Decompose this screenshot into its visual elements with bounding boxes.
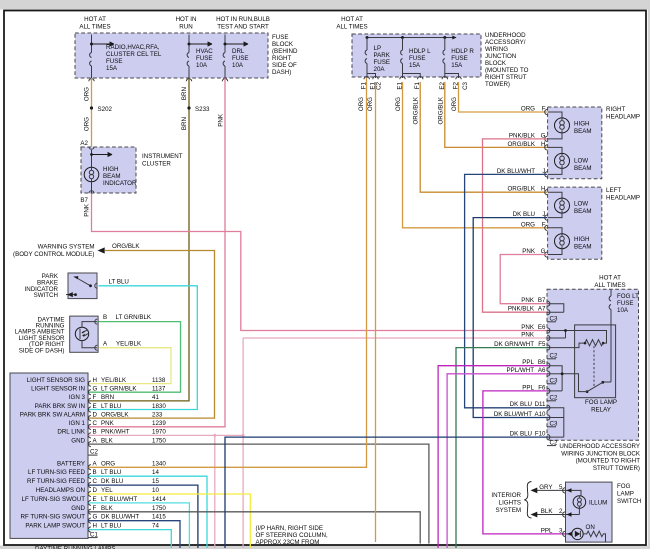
svg-text:PNK: PNK (101, 420, 115, 427)
svg-text:PNK: PNK (521, 331, 535, 338)
fog lamp relay inner box (575, 325, 616, 398)
svg-text:FOG LAMP: FOG LAMP (585, 399, 617, 406)
svg-text:15A: 15A (106, 65, 118, 72)
svg-text:D: D (93, 487, 98, 494)
svg-text:SIDE OF DASH): SIDE OF DASH) (19, 347, 65, 354)
left headlamp low beam bulb (548, 192, 592, 215)
svg-text:PARK BRK SW ALARM: PARK BRK SW ALARM (20, 411, 85, 418)
svg-text:A2: A2 (80, 140, 88, 147)
svg-text:UNDERHOOD ACCESSORY: UNDERHOOD ACCESSORY (559, 443, 640, 450)
svg-text:ORG: ORG (395, 97, 402, 111)
module pin C RF TURN-SIG FEED (27, 478, 159, 488)
module pin E LF TURN-SIG SWOUT (22, 496, 167, 506)
splice S202 (90, 106, 93, 109)
junction block location label (485, 32, 529, 88)
svg-text:F5: F5 (538, 341, 546, 348)
wire PNK/WHT module B to relay coil and down (89, 338, 548, 548)
svg-text:PNK: PNK (218, 113, 225, 127)
wire PNK/BLK right headlamp G to relay A7 (483, 139, 548, 312)
svg-text:ORG: ORG (521, 221, 535, 228)
svg-text:RADIO,HVAC,RFA,: RADIO,HVAC,RFA, (106, 44, 160, 51)
svg-text:DRL: DRL (232, 48, 245, 55)
wire PPL/WHT relay A6 down (447, 374, 547, 548)
wire PPL relay F6 to fog lamp switch pin 3 (483, 391, 566, 534)
svg-text:S202: S202 (98, 106, 113, 113)
splice S233 (187, 106, 190, 109)
svg-text:STRUT TOWER): STRUT TOWER) (593, 465, 640, 472)
relay coil (575, 331, 607, 348)
svg-text:C: C (93, 478, 98, 485)
svg-text:BRN: BRN (181, 117, 188, 130)
svg-text:YEL/BLK: YEL/BLK (116, 340, 142, 347)
fog switch pin 3 PPL (541, 528, 565, 537)
interior lights system label (491, 482, 531, 519)
svg-text:B: B (93, 429, 97, 436)
svg-text:F: F (93, 505, 97, 512)
svg-text:ALL TIMES: ALL TIMES (594, 282, 625, 289)
svg-text:F: F (93, 394, 97, 401)
svg-text:D11: D11 (535, 401, 546, 408)
svg-text:LIGHT SENSOR SIG: LIGHT SENSOR SIG (27, 377, 86, 384)
svg-text:A6: A6 (538, 367, 546, 374)
svg-text:14: 14 (152, 469, 159, 476)
svg-text:1239: 1239 (152, 420, 166, 427)
top gray band (0, 0, 650, 10)
svg-text:HVAC: HVAC (196, 48, 213, 55)
svg-text:RIGHT: RIGHT (606, 106, 625, 113)
bus wire with arrow (367, 37, 456, 39)
wire PNK from DRL fuse to module pin C (IGN 1) (89, 78, 226, 427)
fog switch ON indicator LED (566, 524, 595, 540)
svg-text:A7: A7 (538, 306, 546, 313)
svg-text:UNDERHOOD: UNDERHOOD (485, 32, 526, 39)
svg-text:ORG: ORG (84, 87, 91, 101)
svg-text:HIGH: HIGH (103, 166, 118, 173)
svg-text:DK BLU/WHT: DK BLU/WHT (101, 514, 139, 521)
svg-text:E: E (93, 403, 97, 410)
svg-text:H: H (93, 523, 97, 530)
svg-text:ORG/BLK: ORG/BLK (507, 186, 535, 193)
svg-text:TOWER): TOWER) (485, 81, 510, 88)
svg-text:ON: ON (586, 524, 595, 531)
svg-text:B7: B7 (80, 197, 88, 204)
svg-text:LOW: LOW (574, 201, 588, 208)
module pin G LIGHT SENSOR IN (31, 386, 166, 395)
svg-text:WARNING SYSTEM: WARNING SYSTEM (38, 244, 95, 251)
wire LT BLU module B (C1) down (89, 476, 208, 548)
svg-text:YEL/BLK: YEL/BLK (101, 377, 127, 384)
fuse block location label (272, 34, 298, 76)
svg-text:B: B (93, 469, 97, 476)
connector C2 label (547, 353, 558, 360)
DRL control module box (10, 373, 88, 538)
wire DK GRN/WHT relay F5 down (456, 348, 547, 548)
park brake indicator switch (25, 273, 98, 299)
wire YEL module D (C1) down (89, 494, 251, 548)
junction block bottom pin stubs (367, 71, 459, 78)
svg-text:ALL TIMES: ALL TIMES (336, 24, 367, 31)
svg-text:HOT AT: HOT AT (599, 275, 621, 282)
module pin H PARK LAMP SWOUT (25, 523, 159, 533)
harness note text (256, 525, 328, 546)
svg-text:1750: 1750 (152, 437, 166, 444)
svg-text:1340: 1340 (152, 460, 166, 467)
svg-text:1830: 1830 (152, 403, 166, 410)
svg-text:PPL/WHT: PPL/WHT (506, 367, 534, 374)
fuse HDLP R 15A (443, 38, 474, 72)
module pin D HEADLAMPS ON (36, 487, 160, 497)
svg-text:LT GRN/BLK: LT GRN/BLK (101, 386, 137, 393)
svg-text:BLOCK: BLOCK (272, 41, 294, 48)
svg-text:HOT IN RUN,BULB: HOT IN RUN,BULB (216, 16, 270, 23)
svg-text:ILLUM: ILLUM (589, 500, 607, 507)
wire LT BLU park brake switch to module pin E (89, 286, 198, 410)
svg-text:BEAM: BEAM (103, 173, 121, 180)
fog switch internal ground line (566, 514, 580, 516)
warning system arrow (body control module) (13, 244, 105, 259)
module pin G RF TURN-SIG SWOUT (20, 514, 166, 524)
wire DK BLU/WHT module G (C1) down (89, 521, 181, 548)
svg-text:E: E (93, 496, 97, 503)
connector C2 label (89, 449, 99, 456)
wire ORG battery feed from junction block pin F1 to module A (89, 78, 367, 467)
svg-text:LT BLU: LT BLU (101, 523, 121, 530)
module pin A BATTERY (C1) (57, 460, 166, 470)
svg-text:DK GRN/WHT: DK GRN/WHT (494, 341, 534, 348)
svg-text:FOG: FOG (617, 483, 631, 490)
svg-text:HOT AT: HOT AT (84, 16, 106, 23)
svg-text:BRN: BRN (101, 394, 114, 401)
svg-text:LP: LP (374, 45, 382, 52)
svg-text:FUSE: FUSE (617, 300, 634, 307)
svg-text:1970: 1970 (152, 429, 166, 436)
svg-text:C: C (93, 420, 98, 427)
fuse block (behind right side of dash) (75, 33, 268, 78)
svg-text:LT BLU: LT BLU (101, 469, 121, 476)
svg-text:ACCESSORY/: ACCESSORY/ (485, 39, 526, 46)
module pin C IGN 1 (69, 420, 166, 429)
wire BLK module A (GND) down (89, 444, 429, 543)
svg-text:B: B (103, 314, 107, 321)
wire ORG/BLK warning system to module pin D (89, 251, 215, 419)
svg-text:ORG: ORG (358, 97, 365, 111)
svg-text:10: 10 (152, 487, 159, 494)
svg-text:CLUSTER CEL TEL: CLUSTER CEL TEL (106, 51, 162, 58)
svg-text:RUN: RUN (179, 24, 192, 31)
svg-text:SYSTEM: SYSTEM (496, 507, 521, 514)
svg-text:BEAM: BEAM (574, 244, 592, 251)
svg-text:LT GRN/BLK: LT GRN/BLK (116, 314, 152, 321)
svg-text:DRL LINK: DRL LINK (57, 429, 85, 436)
svg-text:H: H (93, 377, 97, 384)
relay switch (562, 325, 611, 393)
svg-text:APPROX 23CM FROM: APPROX 23CM FROM (256, 539, 320, 546)
wire ORG junction F2 to right headlamp F (459, 82, 548, 112)
wire DK BLU module C (C1) down (89, 485, 198, 548)
svg-text:LF TURN-SIG SWOUT: LF TURN-SIG SWOUT (22, 496, 86, 503)
svg-text:(MOUNTED TO RIGHT: (MOUNTED TO RIGHT (576, 458, 641, 465)
fuse RADIO HVAC RFA CLUSTER CEL TEL 15A (90, 35, 162, 79)
fuse FOG LT 10A (609, 289, 639, 325)
svg-text:41: 41 (152, 394, 159, 401)
svg-text:LT BLU/WHT: LT BLU/WHT (101, 496, 137, 503)
svg-text:TEST AND START: TEST AND START (217, 24, 269, 31)
wire ORG from radio fuse to S202 and instrument cluster A2 (91, 78, 93, 147)
module pin A GND (71, 437, 166, 446)
right headlamp low beam bulb (548, 147, 592, 172)
svg-text:HOT IN: HOT IN (176, 16, 197, 23)
svg-text:B7: B7 (538, 297, 546, 304)
svg-text:LT BLU: LT BLU (101, 403, 121, 410)
wire ORG/BLK junction E2 to right headlamp H (445, 82, 547, 147)
svg-text:ORG/BLK: ORG/BLK (112, 243, 140, 250)
svg-text:RELAY: RELAY (591, 407, 611, 414)
svg-text:RF TURN-SIG FEED: RF TURN-SIG FEED (27, 478, 86, 485)
svg-text:BEAM: BEAM (574, 208, 592, 215)
svg-text:G: G (93, 514, 98, 521)
svg-text:BLK: BLK (101, 505, 114, 512)
svg-text:C3: C3 (462, 81, 469, 89)
svg-text:IGN 3: IGN 3 (69, 394, 86, 401)
svg-text:10A: 10A (196, 62, 208, 69)
wire DK BLU relay F10 down (225, 437, 547, 548)
connector C3 label (547, 378, 558, 385)
module pin H LIGHT SENSOR SIG (27, 377, 166, 386)
svg-text:FUSE: FUSE (374, 59, 391, 66)
svg-text:ORG/BLK: ORG/BLK (437, 96, 444, 124)
svg-text:ORG: ORG (451, 97, 458, 111)
bottom gray band (0, 546, 650, 549)
wire LT GRN/BLK sensor B to module pin G (89, 322, 181, 393)
right headlamp high beam bulb (548, 112, 592, 135)
svg-text:DK BLU: DK BLU (510, 401, 532, 408)
wire LT BLU/WHT module E (C1) down (89, 503, 190, 548)
svg-text:HIGH: HIGH (574, 236, 589, 243)
wire PNK from cluster B7 to fog relay E6 (92, 194, 548, 331)
svg-text:ORG/BLK: ORG/BLK (101, 411, 129, 418)
svg-text:WIRING JUNCTION BLOCK: WIRING JUNCTION BLOCK (561, 450, 641, 457)
wire DK BLU left headlamp J to relay A10 (473, 218, 547, 418)
cluster internal feed wire and arrow (91, 150, 93, 167)
svg-text:FUSE: FUSE (272, 34, 289, 41)
wire YEL/BLK sensor A to module pin H (89, 348, 172, 384)
svg-text:BEAM: BEAM (574, 128, 592, 135)
svg-text:ORG/BLK: ORG/BLK (507, 141, 535, 148)
connector C1 label (89, 532, 99, 539)
svg-text:ORG/BLK: ORG/BLK (413, 96, 420, 124)
svg-text:LIGHTS: LIGHTS (499, 500, 521, 507)
junction block lower location label (559, 443, 641, 472)
svg-text:FUSE: FUSE (106, 58, 123, 65)
svg-text:BLOCK: BLOCK (485, 60, 507, 67)
underhood accessory wiring junction block (top) (352, 34, 481, 77)
svg-text:DASH): DASH) (272, 69, 291, 76)
svg-text:S233: S233 (195, 106, 210, 113)
connector C2 label (relay bottom) (547, 439, 558, 446)
right gray band (648, 0, 650, 549)
svg-text:FUSE: FUSE (409, 55, 426, 62)
svg-text:HEADLAMPS ON: HEADLAMPS ON (36, 487, 85, 494)
svg-text:RIGHT STRUT: RIGHT STRUT (485, 74, 527, 81)
svg-text:233: 233 (152, 411, 163, 418)
svg-text:10A: 10A (617, 307, 629, 314)
svg-text:DK BLU: DK BLU (101, 478, 123, 485)
module pin B DRL LINK (57, 429, 166, 438)
daytime running lamps ambient light sensor (15, 316, 98, 354)
fuse LP PARK 20A (365, 38, 391, 74)
svg-text:15A: 15A (451, 62, 463, 69)
svg-text:LF TURN-SIG FEED: LF TURN-SIG FEED (28, 469, 85, 476)
right headlamp box (548, 107, 602, 179)
svg-text:FUSE: FUSE (196, 55, 213, 62)
svg-text:SWITCH: SWITCH (34, 292, 58, 299)
svg-text:A10: A10 (534, 411, 546, 418)
wire PNK left headlamp G to relay B7 (500, 255, 547, 304)
svg-text:BATTERY: BATTERY (57, 460, 85, 467)
svg-text:PNK: PNK (521, 324, 535, 331)
wire DK BLU/WHT right headlamp J to relay D11 (465, 174, 547, 407)
fog switch pin 5 GRY arrow to interior lights (531, 484, 566, 493)
svg-text:F1: F1 (361, 81, 368, 89)
svg-text:PARK: PARK (374, 52, 391, 59)
svg-text:D: D (93, 411, 98, 418)
svg-text:1137: 1137 (152, 386, 166, 393)
svg-text:INTERIOR: INTERIOR (491, 492, 521, 499)
svg-text:FOG LT: FOG LT (617, 293, 639, 300)
svg-text:(I/P HARN, RIGHT SIDE: (I/P HARN, RIGHT SIDE (256, 525, 324, 532)
svg-text:PARK BRK SW IN: PARK BRK SW IN (35, 403, 85, 410)
connector C2 label (547, 395, 558, 402)
svg-text:LOW: LOW (574, 158, 588, 165)
fog lamp switch box (566, 482, 613, 542)
svg-text:WIRING: WIRING (485, 46, 508, 53)
svg-text:(BODY CONTROL MODULE): (BODY CONTROL MODULE) (13, 251, 94, 258)
svg-text:(BEHIND: (BEHIND (272, 48, 298, 55)
module pin E PARK BRK SW IN (35, 403, 167, 412)
svg-text:DAYTIME RUNNING LAMPS: DAYTIME RUNNING LAMPS (35, 546, 115, 549)
svg-text:INDICATOR: INDICATOR (103, 180, 137, 187)
module pin D PARK BRK SW ALARM (20, 411, 163, 420)
svg-text:1415: 1415 (152, 514, 166, 521)
fuse DRL 10A (223, 35, 248, 79)
svg-text:ORG: ORG (101, 460, 115, 467)
instrument cluster box (81, 147, 136, 193)
svg-text:DK BLU/WHT: DK BLU/WHT (494, 411, 532, 418)
wire BLK module F (C1) down (89, 512, 421, 544)
svg-text:CLUSTER: CLUSTER (142, 161, 171, 168)
svg-text:ALL TIMES: ALL TIMES (79, 24, 110, 31)
svg-text:20A: 20A (374, 66, 386, 73)
svg-text:LEFT: LEFT (606, 187, 621, 194)
svg-text:GND: GND (71, 437, 85, 444)
svg-text:LT BLU: LT BLU (109, 278, 129, 285)
svg-text:BRN: BRN (181, 87, 188, 100)
svg-text:(MOUNTED TO: (MOUNTED TO (485, 67, 529, 74)
wire LT BLU module H (C1) down (89, 530, 172, 548)
svg-text:BEAM: BEAM (574, 165, 592, 172)
module pin B LF TURN-SIG FEED (28, 469, 159, 479)
svg-text:E6: E6 (538, 324, 546, 331)
svg-text:OF STEERING COLUMN,: OF STEERING COLUMN, (256, 532, 328, 539)
pin hooks at fuse block bottom (89, 79, 228, 82)
svg-text:YEL: YEL (101, 487, 113, 494)
svg-text:FUSE: FUSE (451, 55, 468, 62)
underhood accessory wiring junction block (fog lamp relay) (547, 289, 639, 440)
svg-text:RIGHT: RIGHT (272, 55, 291, 62)
svg-text:LIGHT SENSOR IN: LIGHT SENSOR IN (31, 386, 85, 393)
svg-text:PNK/WHT: PNK/WHT (101, 429, 130, 436)
svg-text:GND: GND (71, 505, 85, 512)
svg-text:INSTRUMENT: INSTRUMENT (142, 153, 183, 160)
svg-text:BLK: BLK (101, 437, 114, 444)
module pin F IGN 3 (69, 394, 160, 403)
fog switch resistor (583, 531, 605, 542)
high beam indicator bulb (84, 166, 137, 187)
svg-text:1414: 1414 (152, 496, 166, 503)
svg-text:JUNCTION: JUNCTION (485, 53, 516, 60)
svg-text:SIDE OF: SIDE OF (272, 62, 297, 69)
svg-text:B6: B6 (538, 359, 546, 366)
svg-text:HDLP L: HDLP L (409, 48, 431, 55)
svg-text:PNK: PNK (84, 203, 91, 217)
svg-text:DK BLU: DK BLU (513, 211, 535, 218)
svg-text:ORG: ORG (521, 106, 535, 113)
fuse HDLP L 15A (401, 38, 431, 72)
wire ORG junction E1(2) to left headlamp F (403, 82, 548, 228)
svg-text:PNK: PNK (521, 297, 535, 304)
svg-text:1138: 1138 (152, 377, 166, 384)
svg-text:HEADLAMP: HEADLAMP (606, 114, 640, 121)
svg-text:PPL: PPL (541, 528, 553, 535)
module pin F GND (C1) (71, 505, 166, 515)
fog switch pin 2 BLK arrow to interior lights (531, 508, 566, 517)
connector C3 label (relay top) (547, 316, 558, 323)
svg-text:15A: 15A (409, 62, 421, 69)
svg-text:ORG: ORG (367, 97, 374, 111)
svg-text:10A: 10A (232, 62, 244, 69)
svg-text:PPL: PPL (522, 359, 534, 366)
svg-text:PNK/BLK: PNK/BLK (508, 306, 535, 313)
wire BRN from HVAC fuse through S233 to DRL module pin F (89, 78, 190, 401)
svg-text:G: G (93, 386, 98, 393)
svg-text:15: 15 (152, 478, 159, 485)
pin hooks on junction block bottom (364, 77, 461, 80)
svg-text:HEADLAMP: HEADLAMP (606, 195, 640, 202)
svg-text:LAMP: LAMP (617, 491, 634, 498)
wire ORG/BLK junction F1 to left headlamp H (420, 82, 547, 192)
left headlamp high beam bulb (548, 228, 592, 251)
svg-text:C2: C2 (376, 81, 383, 89)
fog switch ILLUM bulb (566, 490, 608, 514)
svg-text:74: 74 (152, 523, 159, 530)
connector C3 label (547, 421, 558, 428)
svg-text:1750: 1750 (152, 505, 166, 512)
svg-text:HOT AT: HOT AT (341, 16, 363, 23)
wire PPL relay B6 down (438, 366, 547, 548)
svg-text:ORG: ORG (84, 117, 91, 131)
wire ORG junction E1 down to page bottom (375, 82, 377, 542)
svg-text:IGN 1: IGN 1 (69, 420, 86, 427)
svg-text:HDLP R: HDLP R (451, 48, 474, 55)
svg-text:SWITCH: SWITCH (617, 498, 641, 505)
svg-text:RF TURN-SIG SWOUT: RF TURN-SIG SWOUT (20, 514, 85, 521)
svg-text:FUSE: FUSE (232, 55, 249, 62)
svg-text:HIGH: HIGH (574, 121, 589, 128)
left headlamp box (548, 187, 602, 259)
fuse HVAC 10A (187, 35, 213, 79)
svg-text:PARK LAMP SWOUT: PARK LAMP SWOUT (25, 523, 85, 530)
